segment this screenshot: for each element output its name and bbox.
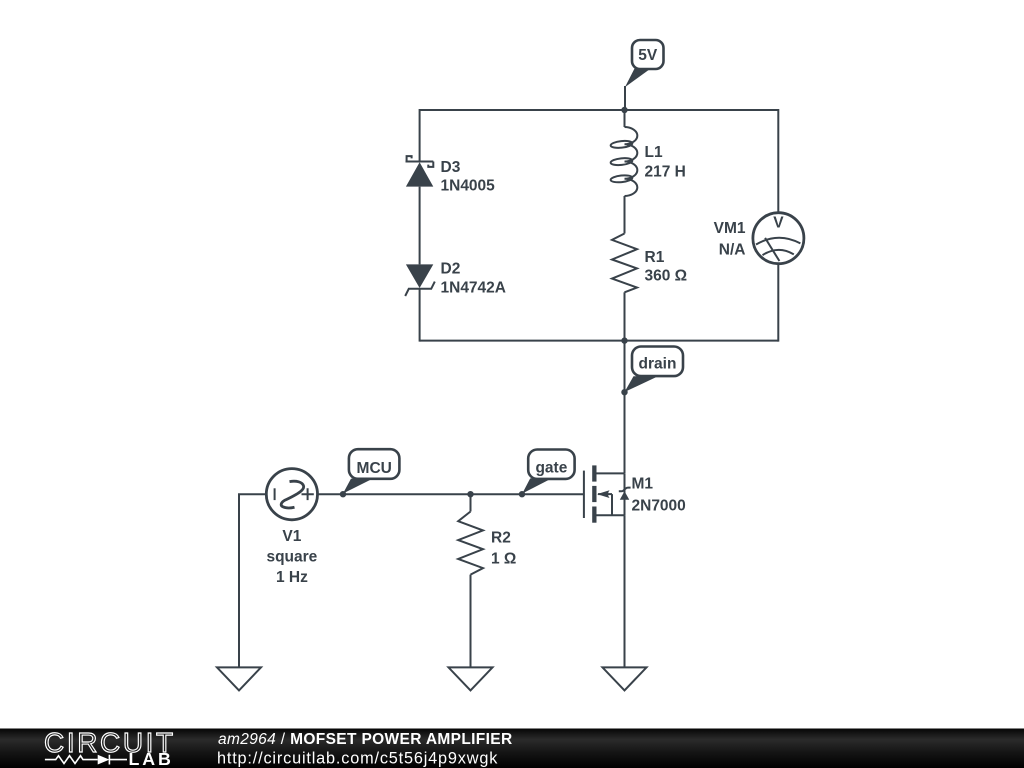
svg-text:R2: R2 — [491, 530, 511, 547]
svg-text:drain: drain — [639, 356, 677, 373]
wire 5V to top rail — [624, 86, 626, 110]
voltage source V1 — [266, 469, 317, 520]
node dot gate — [519, 491, 525, 497]
svg-text:gate: gate — [535, 459, 567, 476]
wire L1 to R1 — [624, 196, 626, 234]
wire bottom rail — [420, 340, 779, 342]
node gate flag — [522, 450, 574, 494]
node junction top — [621, 107, 627, 113]
wire right branch upper — [777, 109, 779, 212]
transistor M1 NMOS — [584, 465, 631, 522]
logo squiggle — [45, 755, 127, 765]
wire R1 to bottom rail — [624, 292, 626, 340]
wire top rail — [420, 109, 779, 111]
svg-text:http://circuitlab.com/c5t56j4p: http://circuitlab.com/c5t56j4p9xwgk — [217, 750, 498, 768]
svg-text:R1: R1 — [645, 249, 665, 266]
svg-text:1 Hz: 1 Hz — [276, 569, 308, 586]
wire D2 to bottom rail — [419, 289, 421, 342]
wire drain — [624, 341, 626, 474]
wire R2 to ground — [470, 575, 472, 668]
ground G1 — [217, 667, 261, 690]
wire V1 left to ground — [239, 494, 267, 667]
label D2 1N4742A — [441, 261, 507, 297]
ground G2 — [449, 667, 493, 690]
node dot R2 — [467, 491, 473, 497]
svg-text:1N4742A: 1N4742A — [441, 279, 507, 296]
label R1 360 ohm — [645, 249, 688, 285]
node junction bottom rail — [621, 337, 627, 343]
resistor R2 — [458, 512, 483, 575]
diode D2 zener — [405, 264, 435, 296]
label L1 217 H — [645, 144, 686, 180]
svg-text:L1: L1 — [645, 144, 663, 161]
svg-text:LAB: LAB — [129, 749, 174, 768]
footer bar — [0, 729, 1024, 768]
node dot drain — [621, 389, 627, 395]
wire 5V junction to L1 — [624, 110, 626, 127]
label VM1 N/A — [714, 220, 746, 258]
label V1 square 1 Hz — [266, 528, 317, 586]
svg-text:217 H: 217 H — [645, 164, 686, 181]
wire R2 drop — [470, 494, 472, 511]
label D3 1N4005 — [441, 159, 496, 195]
label R2 1 ohm — [491, 530, 516, 568]
svg-text:MCU: MCU — [357, 460, 392, 477]
wire D3 to D2 — [419, 187, 421, 265]
diode D3 — [406, 156, 434, 187]
resistor R1 — [612, 234, 637, 293]
voltmeter VM1 — [753, 213, 804, 264]
node 5V flag — [625, 40, 664, 87]
svg-text:M1: M1 — [632, 476, 654, 493]
svg-text:square: square — [266, 549, 317, 566]
svg-text:N/A: N/A — [719, 241, 746, 258]
node drain flag — [625, 347, 684, 393]
svg-text:V1: V1 — [282, 528, 301, 545]
svg-text:D2: D2 — [441, 261, 461, 278]
node MCU flag — [343, 449, 399, 493]
ground G3 — [603, 667, 647, 690]
inductor L1 — [610, 127, 637, 196]
svg-text:am2964 / MOFSET POWER AMPLIFIE: am2964 / MOFSET POWER AMPLIFIER — [218, 731, 513, 748]
svg-text:360 Ω: 360 Ω — [645, 268, 688, 285]
label M1 2N7000 — [632, 476, 686, 515]
wire source down — [624, 515, 626, 667]
svg-text:VM1: VM1 — [714, 220, 746, 237]
wire left branch upper — [419, 109, 421, 162]
wire gate rail — [318, 493, 584, 495]
svg-text:2N7000: 2N7000 — [632, 497, 686, 514]
svg-text:1N4005: 1N4005 — [441, 177, 496, 194]
svg-text:5V: 5V — [638, 47, 658, 64]
node dot MCU — [340, 491, 346, 497]
svg-text:V: V — [773, 215, 784, 232]
svg-text:1 Ω: 1 Ω — [491, 551, 516, 568]
svg-text:D3: D3 — [441, 159, 461, 176]
wire VM1 to bottom rail — [777, 264, 779, 342]
